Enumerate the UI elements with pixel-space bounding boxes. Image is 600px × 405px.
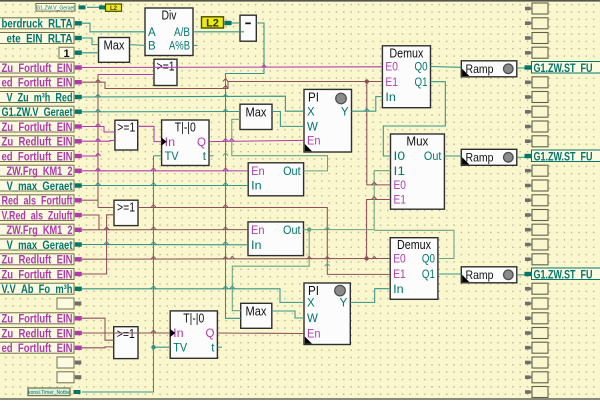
timer block U6 'T|-|0' xyxy=(162,120,209,166)
window bottom border xyxy=(0,398,600,400)
svg-text:E0: E0 xyxy=(385,62,398,74)
svg-text:En: En xyxy=(251,225,265,237)
wire U13 Out net up to Mux I1 xyxy=(374,171,390,230)
input label row23 ed_Fortluft_EIN xyxy=(0,341,82,355)
junction dot TV net at timer U17 xyxy=(151,345,155,349)
hop row5 jog x225 xyxy=(223,86,228,89)
wire row14 V.Red_als_Zuluft join xyxy=(82,215,99,230)
hop out2 east x327 xyxy=(325,227,330,230)
input label row12 V_max_Geraet xyxy=(0,179,82,193)
svg-text:T|-|0: T|-|0 xyxy=(183,311,204,325)
hop row22 x153 xyxy=(151,330,156,333)
wire Mux Out to Ramp R2 xyxy=(444,155,461,157)
yellow tag L2 xyxy=(202,17,232,30)
svg-text:A: A xyxy=(148,27,156,39)
wire row10 to x98 net xyxy=(82,155,98,157)
svg-text:T|-|0: T|-|0 xyxy=(175,121,196,135)
hop row7 x225 xyxy=(223,109,228,112)
svg-text:Demux: Demux xyxy=(389,46,424,60)
hop row9 x98 xyxy=(95,138,100,141)
output stub box row23 xyxy=(525,342,548,353)
window top border xyxy=(0,0,600,2)
ramp block 'Ramp' R1 xyxy=(461,61,517,77)
output stub box row0 xyxy=(525,3,548,14)
stub timer U17 t xyxy=(217,346,222,348)
output stub box row15 xyxy=(525,224,548,235)
wire into OR U12 in1 xyxy=(98,207,114,209)
input label row7 G1.ZW.V_Geraet xyxy=(0,105,82,119)
input label row10 ed_Fortluft_EIN xyxy=(0,149,82,163)
tiny tag box G1.ZW.V_Geraet top xyxy=(36,4,86,12)
input label row5 ed_Fortluft_EIN xyxy=(0,76,82,90)
or gate U4 '>=1' xyxy=(154,59,177,85)
wire Demux U9 Q0 to Ramp R1 xyxy=(431,66,462,69)
hop T1Q-En x225 xyxy=(223,139,228,142)
output stub box row8 xyxy=(525,121,548,132)
wire Max U16 out to PI U15 W xyxy=(272,311,304,318)
svg-text:Ramp: Ramp xyxy=(466,62,494,76)
output stub box row3 xyxy=(525,47,548,58)
svg-text:>=1: >=1 xyxy=(157,60,175,74)
ramp block 'Ramp' R2 xyxy=(461,149,517,165)
svg-text:Q0: Q0 xyxy=(415,62,428,74)
wire U11 Out to Max U7 in2 xyxy=(232,119,328,171)
hop row17 x232 xyxy=(230,256,235,259)
input label row17 Zu_Redluft_EIN xyxy=(0,253,82,267)
wire Ramp R2 out to connector xyxy=(517,156,525,158)
output stub box row22 xyxy=(525,328,548,339)
svg-text:W: W xyxy=(307,122,318,134)
junction dot row17 branch xyxy=(364,256,368,260)
wire Max U7 out to PI U8 W xyxy=(272,112,304,127)
hop row11 x153 xyxy=(151,168,156,171)
wire row5 ed_Fortluft to Demux U9 E1 xyxy=(82,82,382,89)
hop row19 x232 xyxy=(230,286,235,289)
wire Max U2 out to Div B xyxy=(130,44,146,47)
svg-text:L2: L2 xyxy=(206,18,219,30)
svg-text:In: In xyxy=(173,328,184,340)
hop out1 net x225 xyxy=(223,153,228,156)
svg-text:ed_Fortluft_EIN: ed_Fortluft_EIN xyxy=(2,76,73,90)
svg-text:Zu_Fortluft_EIN: Zu_Fortluft_EIN xyxy=(2,312,73,326)
output stub box row11 xyxy=(525,165,548,176)
svg-text:ete_EIN_RLTA: ete_EIN_RLTA xyxy=(7,31,73,45)
wire row18 Zu_Fortluft to OR U12 in2 xyxy=(82,215,114,274)
svg-text:Mux: Mux xyxy=(406,135,429,149)
wire U13 Out east xyxy=(304,229,375,231)
svg-text:E1: E1 xyxy=(394,195,407,207)
output stub box row7 xyxy=(525,106,548,117)
svg-text:Zu_Redluft_EIN: Zu_Redluft_EIN xyxy=(2,135,73,149)
output stub box row19 xyxy=(525,283,548,294)
ramp block 'Ramp' R3 xyxy=(461,267,517,283)
svg-text:V.Red_als_Zuluft: V.Red_als_Zuluft xyxy=(2,208,73,222)
hop row17 x153 xyxy=(151,256,156,259)
multiplexer U10 'Mux' xyxy=(391,134,445,209)
hop MuxE0 x374 xyxy=(372,182,377,185)
hop row16 x225 xyxy=(223,242,228,245)
input label row9 Zu_Redluft_EIN xyxy=(0,135,82,149)
svg-text:>=1: >=1 xyxy=(117,327,135,341)
junction dot out2 branch xyxy=(307,227,311,231)
svg-text:Zu_Fortluft_EIN: Zu_Fortluft_EIN xyxy=(2,267,73,281)
svg-text:ZW.Frg_KM1_2: ZW.Frg_KM1_2 xyxy=(7,223,73,237)
input label row19 V.V_Ab_Fo_m³h xyxy=(0,282,82,296)
input label row18 Zu_Fortluft_EIN xyxy=(0,267,82,281)
wire TV net to timer U17 TV xyxy=(154,346,171,348)
wire U13 Out branch to Max U16 in1 xyxy=(232,230,309,311)
wire row5 branch to OR U4 in2 xyxy=(98,74,154,76)
svg-text:ed_Fortluft_EIN: ed_Fortluft_EIN xyxy=(2,341,73,355)
svg-text:Div: Div xyxy=(162,9,178,23)
hop row19 x153 xyxy=(151,286,156,289)
wire timer U17 Q to PI U15 En xyxy=(217,332,304,335)
wire row16 V_max to U13 In xyxy=(82,244,248,246)
output stub box row25 xyxy=(525,372,548,383)
svg-text:E0: E0 xyxy=(393,254,406,266)
svg-text:TV: TV xyxy=(165,151,179,163)
svg-text:G1.ZW.V_Geraet: G1.ZW.V_Geraet xyxy=(36,5,75,11)
hop out2branch x327 xyxy=(325,263,330,266)
wire PI U15 Y to Demux U14 In xyxy=(350,289,390,303)
svg-text:In: In xyxy=(251,181,262,193)
hop row11 x225 xyxy=(223,168,228,171)
svg-text:Max: Max xyxy=(246,106,268,120)
hop row16 x153 xyxy=(151,242,156,245)
svg-text:X: X xyxy=(307,106,315,118)
input label row8 Zu_Fortluft_EIN xyxy=(0,120,82,134)
junction dot E1 net xyxy=(365,79,369,83)
max selector U16 'Max' xyxy=(241,303,272,328)
svg-text:E1: E1 xyxy=(393,269,406,281)
svg-text:I1: I1 xyxy=(394,166,406,178)
input label row14 V.Red_als_Zuluft xyxy=(0,208,82,222)
wire OR U12 out to Demux U14 E1 xyxy=(138,208,390,275)
timer block U17 'T|-|0' xyxy=(170,311,217,358)
hop row15 x106 xyxy=(104,227,109,230)
wire row22 through OR U18 to timer U17 In xyxy=(82,332,170,334)
wire row11 ZW.Frg to U11 En xyxy=(82,170,248,172)
hop row17 x225 xyxy=(223,256,228,259)
wire L2 tag to negation block xyxy=(232,22,241,24)
wire top G1.ZW.V_Geraet tag to L-tag xyxy=(87,6,104,8)
input label row16 V_max_Geraet xyxy=(0,238,82,252)
junction arrow row5 x98 xyxy=(95,80,100,83)
svg-text:G1.ZW.ST_FU_: G1.ZW.ST_FU_ xyxy=(534,61,598,75)
svg-text:ed_Fortluft_EIN: ed_Fortluft_EIN xyxy=(2,149,73,163)
svg-text:In: In xyxy=(251,240,262,252)
wire row2 to Max U2 in1 xyxy=(82,38,99,45)
output stub box row2 xyxy=(525,33,548,44)
svg-text:konsi.Timer_Notbe: konsi.Timer_Notbe xyxy=(28,390,70,396)
svg-text:X: X xyxy=(307,298,315,310)
svg-text:V.V_Ab_Fo_m³h: V.V_Ab_Fo_m³h xyxy=(2,282,73,296)
tiny tag box konsi.Timer_Notbe bottom xyxy=(28,388,81,396)
hop row19 x225 xyxy=(223,286,228,289)
hop row6 x98 xyxy=(95,94,100,97)
svg-text:B: B xyxy=(148,41,156,53)
wire row23 to OR U18 in3 xyxy=(82,346,114,349)
wire Ramp R3 out to connector xyxy=(517,274,525,276)
stub Div A%B xyxy=(193,44,198,46)
svg-text:V_Zu_m³h_Red: V_Zu_m³h_Red xyxy=(7,90,73,104)
svg-text:1: 1 xyxy=(63,48,69,60)
svg-text:>=1: >=1 xyxy=(117,121,135,135)
stub timer U6 t xyxy=(209,155,214,157)
hop row12 x153 xyxy=(151,183,156,186)
hop row4 x264 xyxy=(261,65,266,68)
wire row19 V.V_Ab_Fo to PI U15 X xyxy=(82,289,304,303)
svg-text:Y: Y xyxy=(341,106,349,118)
hop row6 x225 xyxy=(223,94,228,97)
empty stub box row25 xyxy=(57,372,81,383)
svg-text:Ramp: Ramp xyxy=(466,268,494,282)
svg-text:Red_als_Fortluft: Red_als_Fortluft xyxy=(2,194,73,208)
svg-text:PI: PI xyxy=(308,284,319,298)
wire row8 to OR U5 in1 xyxy=(82,127,115,133)
hop row12 x225 xyxy=(223,183,228,186)
hop row17 x374 xyxy=(372,256,377,259)
max selector U2 'Max' xyxy=(99,38,130,63)
demultiplexer U9 'Demux' xyxy=(382,46,430,108)
svg-text:G1.ZW.ST_FU_: G1.ZW.ST_FU_ xyxy=(534,268,598,282)
svg-text:>=1: >=1 xyxy=(117,201,135,215)
output stub box row14 xyxy=(525,210,548,221)
negation block U3 '-' xyxy=(240,15,256,41)
svg-text:Q1: Q1 xyxy=(415,77,428,89)
svg-text:PI: PI xyxy=(308,90,319,104)
svg-text:Ramp: Ramp xyxy=(466,151,494,165)
svg-text:Zu_Redluft_EIN: Zu_Redluft_EIN xyxy=(2,326,73,340)
svg-text:V_max_Geraet: V_max_Geraet xyxy=(7,179,73,193)
svg-text:Q1: Q1 xyxy=(422,269,435,281)
or gate U12 '>=1' xyxy=(114,200,138,225)
svg-text:G1.ZW.V_Geraet: G1.ZW.V_Geraet xyxy=(2,105,73,119)
yellow tag box top xyxy=(99,4,122,12)
junction arrow row10 x98 xyxy=(95,153,100,156)
wire row17 branch up to Mux E1 xyxy=(367,200,391,259)
wire TV net to timer U6 TV xyxy=(154,155,162,157)
svg-text:A/B: A/B xyxy=(174,27,190,39)
svg-text:Out: Out xyxy=(424,151,442,163)
hop row11 x98 xyxy=(95,168,100,171)
svg-text:Max: Max xyxy=(104,39,126,53)
svg-text:Zu_Fortluft_EIN: Zu_Fortluft_EIN xyxy=(2,61,73,75)
wire row21 to OR U18 in2 xyxy=(82,318,114,340)
hop row15 x225 xyxy=(223,227,228,230)
wire const 1 to Max U2 in2 xyxy=(82,52,99,54)
hop OR U12 out x153 xyxy=(151,205,156,208)
output stub box row13 xyxy=(525,195,548,206)
wire timer U6 Q to PI U8 En xyxy=(209,140,304,141)
output label G1.ZW.ST_FU row10 xyxy=(525,150,600,164)
wire PI U8 Y to Demux U9 In xyxy=(352,97,383,112)
svg-text:Out: Out xyxy=(283,225,301,237)
wire row1 to Div A xyxy=(82,23,145,32)
svg-text:Q0: Q0 xyxy=(422,254,435,266)
output stub box row24 xyxy=(525,357,548,368)
svg-text:L2: L2 xyxy=(110,6,118,12)
wire konsi.Timer vertical TV net xyxy=(82,156,154,392)
output stub box row5 xyxy=(525,77,548,88)
svg-text:Y: Y xyxy=(340,298,348,310)
enable-hold block U13 xyxy=(248,222,304,256)
hop row15 x153 xyxy=(151,227,156,230)
svg-text:Q: Q xyxy=(205,328,214,340)
svg-text:En: En xyxy=(251,166,265,178)
demultiplexer U14 'Demux' xyxy=(390,238,438,300)
hop row17 x327 xyxy=(325,256,330,259)
or gate U18 '>=1' xyxy=(114,327,138,359)
wire row4 Zu_Fortluft to Demux U9 E0 (through OR U4) xyxy=(82,66,382,69)
max selector U7 'Max' xyxy=(240,104,272,129)
svg-text:In: In xyxy=(165,137,176,149)
input label row21 Zu_Fortluft_EIN xyxy=(0,312,82,326)
input label row15 ZW.Frg_KM1_2 xyxy=(0,223,82,237)
output stub box row1 xyxy=(525,18,548,29)
wire Demux U14 Q1 to Ramp R3 xyxy=(438,273,461,275)
output stub box row16 xyxy=(525,239,548,250)
wire Demux U14 Q0 north to I1 net xyxy=(374,230,454,258)
input label row4 Zu_Fortluft_EIN xyxy=(0,61,82,75)
output label G1.ZW.ST_FU row4 xyxy=(525,61,600,75)
PI controller U8 xyxy=(304,89,352,152)
svg-text:berdruck_RLTA: berdruck_RLTA xyxy=(2,17,73,31)
svg-text:I0: I0 xyxy=(394,151,406,163)
hop E1 line x225 xyxy=(223,79,228,82)
wire Demux U9 Q1 to Mux I0 xyxy=(383,82,445,156)
svg-text:W: W xyxy=(307,313,318,325)
vertical branch x98 row5 net down to OR U12 in1 xyxy=(97,75,99,208)
empty stub box row20 xyxy=(57,298,81,309)
wire row13 Red_als_Fortluft to x98 net xyxy=(82,199,98,201)
divider block U1 'Div' xyxy=(145,8,193,56)
hop row17 x309 xyxy=(307,256,312,259)
input label row22 Zu_Redluft_EIN xyxy=(0,326,82,340)
svg-text:Zu_Fortluft_EIN: Zu_Fortluft_EIN xyxy=(2,120,73,134)
output stub box row6 xyxy=(525,92,548,103)
svg-text:Max: Max xyxy=(246,305,268,319)
hop Y1 x366 xyxy=(364,108,369,111)
or gate U5 '>=1' xyxy=(115,120,138,150)
svg-text:TV: TV xyxy=(173,342,187,354)
input label row6 V_Zu_m³h_Red xyxy=(0,90,82,104)
output label G1.ZW.ST_FU row18 xyxy=(525,268,600,282)
svg-text:A%B: A%B xyxy=(169,41,190,53)
input label row13 Red_als_Fortluft xyxy=(0,194,82,208)
svg-text:In: In xyxy=(385,92,396,104)
svg-text:Out: Out xyxy=(283,166,301,178)
PI controller U15 xyxy=(304,283,350,345)
wire row6 V_Zu_m3h to PI U8 X xyxy=(82,96,304,111)
wire Div A/B to negation input xyxy=(193,31,244,33)
wire OR U5 out to timer U6 In xyxy=(138,126,162,141)
output stub box row21 xyxy=(525,313,548,324)
output stub box row12 xyxy=(525,180,548,191)
hop row8 x98 xyxy=(95,124,100,127)
hop T1Q-En x232 xyxy=(229,139,234,142)
hop row16 x106 xyxy=(104,242,109,245)
input label row11 ZW.Frg_KM1_2 xyxy=(0,164,82,178)
output stub box row17 xyxy=(525,254,548,265)
empty stub box row24 xyxy=(57,357,81,368)
input label row2 ete_EIN_RLTA xyxy=(0,31,82,45)
svg-text:En: En xyxy=(307,329,321,341)
wire row17 Zu_Redluft to Demux U14 E0 xyxy=(82,258,390,261)
wire negation out to Max U16 in2 xyxy=(226,23,265,318)
wire row15 ZW.Frg to U13 En xyxy=(82,229,248,231)
svg-text:V_max_Geraet: V_max_Geraet xyxy=(7,238,73,252)
svg-text:G1.ZW.ST_FU_: G1.ZW.ST_FU_ xyxy=(534,150,598,164)
wire Ramp R1 out to connector xyxy=(517,67,525,69)
hop Mux E1 feed x374 xyxy=(372,197,377,200)
output stub box row26 xyxy=(525,387,548,398)
enable-hold block U11 xyxy=(248,163,303,196)
hop row7 x98 xyxy=(95,109,100,112)
output stub box row20 xyxy=(525,298,548,309)
wire row9 to OR U5 in2 xyxy=(82,140,115,143)
svg-text:E0: E0 xyxy=(394,180,407,192)
svg-text:Zu_Redluft_EIN: Zu_Redluft_EIN xyxy=(2,253,73,267)
hop OR U12 out x225 xyxy=(223,205,228,208)
constant 1 box row3 xyxy=(59,47,82,60)
output stub box row9 xyxy=(525,136,548,147)
wire row12 V_max to U11 In xyxy=(82,185,248,187)
svg-text:E1: E1 xyxy=(385,77,398,89)
svg-text:En: En xyxy=(307,136,321,148)
input label row1 berdruck_RLTA xyxy=(0,17,82,31)
svg-text:Q: Q xyxy=(197,137,206,149)
wire E1-net vertical to Mux E0 xyxy=(367,82,391,185)
svg-text:ZW.Frg_KM1_2: ZW.Frg_KM1_2 xyxy=(7,164,73,178)
svg-text:In: In xyxy=(393,284,404,296)
svg-text:Demux: Demux xyxy=(397,238,432,252)
wire row7 G1.ZW.V_Geraet to Max U7 in1 xyxy=(82,111,240,113)
hop row12 x98 xyxy=(95,183,100,186)
